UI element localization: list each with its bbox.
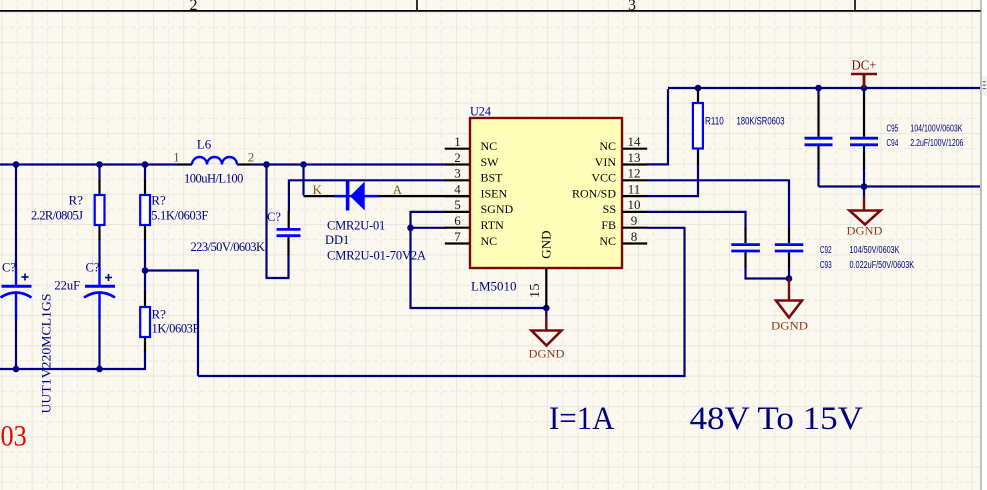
wire output rail <box>819 185 981 187</box>
svg-text:C92: C92 <box>820 245 832 256</box>
pin 6 RTN <box>445 213 504 232</box>
DD1 designator <box>325 233 349 247</box>
capacitor C93 <box>775 228 804 267</box>
wire C? input cap to ground rail <box>15 317 17 369</box>
svg-text:3: 3 <box>628 0 636 14</box>
R110 designator <box>705 116 724 128</box>
pin 4 ISEN <box>445 181 508 200</box>
svg-text:R?: R? <box>69 193 84 208</box>
wire C? 22uF to ground rail <box>98 317 100 369</box>
wire C92 C93 bottoms to DGND <box>746 266 790 280</box>
pin 9 FB <box>601 213 647 232</box>
wire feedback rail B to FB pin <box>198 228 685 376</box>
pin 5 SGND <box>445 197 514 216</box>
svg-text:7: 7 <box>454 229 461 244</box>
wire VCC top rail <box>668 87 980 89</box>
sheet border top line <box>0 10 981 12</box>
wire R110 to RON/SD <box>647 164 698 196</box>
wire R? 2.2R to C? 22uF <box>98 239 100 270</box>
svg-text:CMR2U-01: CMR2U-01 <box>327 219 385 233</box>
svg-text:12: 12 <box>628 166 641 181</box>
svg-text:VIN: VIN <box>595 155 617 169</box>
svg-text:4: 4 <box>454 181 461 196</box>
R? 5.1K designator <box>151 193 166 208</box>
C93 designator <box>820 260 832 271</box>
svg-text:I=1A: I=1A <box>549 401 615 437</box>
wire drop to C? input cap <box>15 165 17 271</box>
svg-text:C?: C? <box>86 261 100 275</box>
diode pin label A <box>393 182 403 197</box>
C? 22uF designator <box>86 261 100 275</box>
wire VCC to C93 <box>647 180 789 228</box>
svg-text:NC: NC <box>481 139 498 153</box>
svg-text:2.2uF/100V/1206: 2.2uF/100V/1206 <box>910 138 963 149</box>
wire SS to C92 <box>647 212 746 229</box>
pin 8 NC <box>599 229 647 248</box>
C92 value <box>850 245 900 256</box>
svg-text:R?: R? <box>152 306 167 321</box>
wire C94 bottom lead <box>863 168 865 187</box>
svg-text:2.2R/0805J: 2.2R/0805J <box>31 209 83 223</box>
svg-text:GND: GND <box>539 231 554 259</box>
svg-text:C94: C94 <box>887 138 899 149</box>
svg-text:180K/SR0603: 180K/SR0603 <box>737 116 785 128</box>
svg-text:8: 8 <box>631 229 638 244</box>
svg-text:5: 5 <box>454 197 461 212</box>
wire SW main left <box>0 163 179 165</box>
C? BST designator <box>267 210 281 224</box>
pin 7 NC <box>445 229 497 248</box>
net label UUT1V220MCL1GS (vertical) <box>39 294 54 414</box>
svg-text:0.022uF/50V/0603K: 0.022uF/50V/0603K <box>850 260 915 271</box>
R? 5.1K value <box>151 209 208 223</box>
wire C95 top lead <box>817 88 819 96</box>
svg-text:BST: BST <box>481 171 504 185</box>
svg-text:48V To 15V: 48V To 15V <box>690 401 864 437</box>
svg-text:14: 14 <box>628 134 642 149</box>
wire R? 5.1K to node X <box>144 239 146 292</box>
diode pin label K <box>313 182 323 197</box>
scrollbar <box>981 0 987 490</box>
pin 13 VIN <box>595 150 648 169</box>
svg-text:3: 3 <box>454 166 461 181</box>
svg-text:DGND: DGND <box>771 319 808 333</box>
svg-text:K: K <box>313 182 323 197</box>
resistor R? 2.2R/0805J <box>95 180 105 240</box>
svg-text:DGND: DGND <box>529 347 565 361</box>
C? BST value 223/50V/0603K <box>191 240 266 254</box>
C92 designator <box>820 245 832 256</box>
svg-text:10: 10 <box>628 197 641 212</box>
L6 pin number 2 <box>248 149 255 164</box>
C? 22uF plus sign <box>105 274 112 281</box>
svg-text:22uF: 22uF <box>54 279 80 293</box>
capacitor C? 22uF electrolytic <box>84 268 115 318</box>
wire node X to feedback rail <box>145 271 198 377</box>
svg-text:C?: C? <box>267 210 281 224</box>
svg-text:SGND: SGND <box>481 202 514 216</box>
wire SW main right of L6 <box>251 163 446 165</box>
svg-text:9: 9 <box>631 213 638 228</box>
R? 1K designator <box>152 306 167 321</box>
svg-text:DC+: DC+ <box>852 58 877 73</box>
pin 10 SS <box>603 197 648 216</box>
wire VIN up <box>647 89 668 164</box>
svg-text:C93: C93 <box>820 260 832 271</box>
wire drop to R? 5.1K <box>144 165 146 182</box>
R110 value 180K/SR0603 <box>737 116 785 128</box>
resistor R? 1K/0603F <box>140 291 150 352</box>
capacitor C? input electrolytic <box>1 268 32 318</box>
pin 11 RON/SD <box>572 181 647 200</box>
svg-text:C?: C? <box>2 261 16 275</box>
svg-text:NC: NC <box>481 234 498 248</box>
resistor R? 5.1K/0603F <box>140 180 150 240</box>
ground DGND under C93 <box>771 279 808 333</box>
C? input plus sign <box>22 274 29 281</box>
svg-text:R?: R? <box>151 193 166 208</box>
C95 designator <box>887 124 899 135</box>
ground DGND under C94 <box>847 196 883 238</box>
svg-text:223/50V/0603K: 223/50V/0603K <box>191 240 266 254</box>
svg-text:A: A <box>393 182 403 197</box>
wire RTN <box>411 227 446 229</box>
wire C95 bottom lead <box>817 168 819 187</box>
svg-text:L6: L6 <box>197 136 212 151</box>
pin 1 NC <box>445 134 497 153</box>
svg-text:ISEN: ISEN <box>481 186 508 200</box>
sheet number 03 <box>1 420 27 452</box>
svg-text:1: 1 <box>454 134 461 149</box>
C95 value <box>910 124 962 135</box>
pin 12 VCC <box>591 166 647 185</box>
svg-text:FB: FB <box>601 218 616 232</box>
pin 14 NC <box>599 134 647 153</box>
C? 22uF value <box>54 279 80 293</box>
capacitor C92 <box>731 228 760 267</box>
U24 designator <box>470 103 491 118</box>
svg-text:03: 03 <box>1 420 27 452</box>
svg-text:DD1: DD1 <box>325 233 349 247</box>
wire BST cap to SW <box>267 165 289 279</box>
svg-text:2: 2 <box>190 0 198 14</box>
sheet zone label 3 (clipped) <box>628 0 636 14</box>
svg-text:6: 6 <box>454 213 461 228</box>
svg-text:CMR2U-01-70V2A: CMR2U-01-70V2A <box>327 249 426 263</box>
svg-text:104/50V/0603K: 104/50V/0603K <box>850 245 900 256</box>
svg-text:104/100V/0603K: 104/100V/0603K <box>910 124 962 135</box>
svg-text:1K/0603F: 1K/0603F <box>152 322 200 336</box>
capacitor C95 <box>805 95 833 169</box>
wire DGND stub under output rail <box>863 187 865 198</box>
wire SGND <box>411 212 547 308</box>
svg-text:RTN: RTN <box>481 218 505 232</box>
svg-text:13: 13 <box>628 150 641 165</box>
DD1 value CMR2U-01 <box>327 219 385 233</box>
svg-text:15: 15 <box>527 283 542 298</box>
pin 2 SW <box>445 150 499 169</box>
capacitor C94 <box>850 95 878 169</box>
C93 value <box>850 260 915 271</box>
pin 3 BST <box>445 166 503 185</box>
U24 part LM5010 <box>471 279 517 294</box>
diode DD1 CMR2U-01 <box>334 181 379 211</box>
svg-text:1: 1 <box>173 149 180 164</box>
L6 pin number 1 <box>173 149 180 164</box>
pin 15 GND <box>527 231 554 309</box>
wire BST <box>289 180 446 212</box>
svg-text:R110: R110 <box>705 116 724 128</box>
R? 2.2R value <box>31 209 83 223</box>
inductor L6 <box>178 157 251 165</box>
sheet border tick x=855 <box>854 0 856 11</box>
R? 1K value <box>152 322 200 336</box>
capacitor C? 223/50V BST <box>277 211 301 255</box>
wire drop to R? 2.2R <box>98 165 100 182</box>
C? input designator <box>2 261 16 275</box>
svg-text:2: 2 <box>248 149 255 164</box>
svg-text:UUT1V220MCL1GS: UUT1V220MCL1GS <box>39 294 54 414</box>
svg-text:C95: C95 <box>887 124 899 135</box>
svg-text:VCC: VCC <box>591 171 616 185</box>
sheet zone label 2 (clipped) <box>190 0 198 14</box>
ground DGND under pin 15 <box>529 308 565 361</box>
resistor R110 <box>693 89 703 165</box>
note 48V To 15V <box>690 401 864 437</box>
svg-text:NC: NC <box>599 139 616 153</box>
R? 2.2R designator <box>69 193 84 208</box>
svg-text:SS: SS <box>603 202 616 216</box>
sheet border tick x=417 <box>416 0 418 11</box>
svg-text:SW: SW <box>481 155 500 169</box>
power port DC+ <box>851 58 877 88</box>
svg-text:100uH/L100: 100uH/L100 <box>184 172 243 186</box>
DD1 part CMR2U-01-70V2A <box>327 249 426 263</box>
svg-text:DGND: DGND <box>847 224 883 238</box>
wire ground rail A <box>0 351 145 369</box>
note I=1A <box>549 401 615 437</box>
svg-text:LM5010: LM5010 <box>471 279 517 294</box>
wire diode line to ISEN (black) <box>304 195 471 197</box>
C94 value <box>910 138 963 149</box>
L6 value 100uH/L100 <box>184 172 243 186</box>
svg-text:NC: NC <box>599 234 616 248</box>
op-amp U24 LM5010 body <box>470 118 622 268</box>
C94 designator <box>887 138 899 149</box>
svg-text:5.1K/0603F: 5.1K/0603F <box>151 209 208 223</box>
svg-text:11: 11 <box>628 181 641 196</box>
L6 designator <box>197 136 212 151</box>
svg-text:U24: U24 <box>470 103 491 118</box>
wire SW to diode cathode <box>302 165 304 196</box>
wire C94 top lead <box>863 88 865 96</box>
svg-text:2: 2 <box>454 150 461 165</box>
svg-text:RON/SD: RON/SD <box>572 186 616 200</box>
